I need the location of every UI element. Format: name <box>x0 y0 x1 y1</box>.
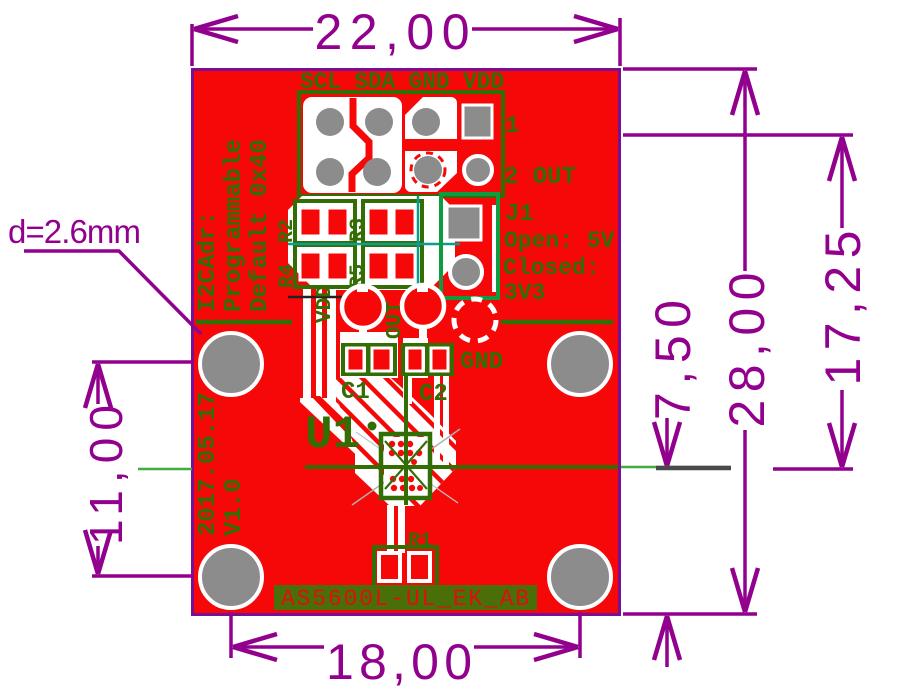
resistor area exposed white region <box>288 196 455 290</box>
svg-text:18,00: 18,00 <box>326 634 472 690</box>
capacitor C2 outline <box>403 345 427 374</box>
jumper J1 outline <box>441 194 498 298</box>
svg-text:I2CAdr:: I2CAdr: <box>195 211 222 312</box>
funnel diagonal bundle to U1 <box>300 398 391 490</box>
C1 pads <box>347 348 364 371</box>
svg-text:Programmable: Programmable <box>221 139 248 312</box>
bare pad circle 3 dashed <box>454 299 496 341</box>
svg-text:R4: R4 <box>276 264 299 288</box>
center line tick left <box>138 468 192 471</box>
pin hole row1 col3 <box>412 108 440 136</box>
silk line right segment y322 <box>501 320 613 325</box>
red patch right block bottom corner <box>437 173 457 192</box>
svg-text:7,50: 7,50 <box>645 300 701 420</box>
white area under C1 <box>340 332 398 378</box>
U1 inner pad field (white with red dot grid) <box>384 437 428 496</box>
svg-text:V1.0: V1.0 <box>221 478 248 536</box>
connector left pad block (white) <box>303 97 402 193</box>
svg-text:VDD: VDD <box>314 285 337 323</box>
silk line left segment y322 <box>196 320 292 325</box>
svg-text:SCL SDA GND VDD: SCL SDA GND VDD <box>300 69 504 95</box>
dim 7,50 lower arrow <box>665 620 669 667</box>
svg-text:17,25: 17,25 <box>815 231 871 386</box>
pin hole row2 col1 <box>316 158 344 186</box>
mounting hole bottom-left <box>200 546 262 608</box>
resistor R1 outline <box>374 547 437 587</box>
svg-text:1: 1 <box>505 113 519 140</box>
svg-text:GND: GND <box>460 349 503 376</box>
dim 28,00 arrows <box>732 71 758 115</box>
trace stubs below U1 <box>387 505 394 553</box>
dark silk line over bundle <box>288 296 346 299</box>
svg-text:2017.05.17: 2017.05.17 <box>195 392 222 536</box>
svg-text:3V3: 3V3 <box>504 280 545 306</box>
U1 crosshair X <box>385 441 427 489</box>
dim 17,25 extension lines <box>623 133 853 137</box>
dim 7,50 upper arrow <box>665 418 669 464</box>
resistor silkscreen outlines <box>295 201 422 287</box>
leader line for d=2.6mm <box>24 251 201 334</box>
dim 28,00 extension lines <box>623 67 757 71</box>
red diagonal stripes over white band <box>306 322 508 524</box>
bottom label box <box>274 585 537 610</box>
connector right pad block (white) <box>405 97 457 192</box>
center line tick right gray <box>656 466 731 471</box>
J1 square pad <box>447 206 481 240</box>
dim 28,00 line <box>743 71 747 271</box>
svg-text:R3: R3 <box>347 218 370 242</box>
svg-text:C2: C2 <box>419 381 448 408</box>
PCB board outline <box>193 70 620 615</box>
R1 pads <box>379 553 400 581</box>
svg-text:J1: J1 <box>505 201 534 228</box>
U1 pin1 dot <box>368 422 377 431</box>
U1 footprint outline <box>381 434 430 498</box>
red patch right block top corner <box>405 97 423 115</box>
teal guide lines <box>288 243 460 246</box>
C2 pads <box>407 348 423 371</box>
trace on connector block <box>352 98 369 192</box>
dim 17,25 line <box>840 137 844 228</box>
svg-text:11,00: 11,00 <box>80 405 132 545</box>
sensor axis line vertical <box>404 376 408 505</box>
svg-text:d=2.6mm: d=2.6mm <box>8 213 141 250</box>
dim 18,00 line <box>233 645 324 649</box>
svg-text:22,00: 22,00 <box>315 4 470 60</box>
funnel white trace bundle left (three vertical stripes) <box>303 288 336 402</box>
svg-text:Open: 5V: Open: 5V <box>504 228 615 254</box>
J1 white trace <box>492 205 496 292</box>
resistor pads row1 <box>300 208 415 236</box>
svg-text:Default 0x40: Default 0x40 <box>247 139 274 312</box>
dim 22,00 left arrow <box>194 16 238 42</box>
dim 17,25 arrows <box>829 137 855 181</box>
bare pad circle 1 <box>342 286 384 328</box>
svg-text:2 OUT: 2 OUT <box>504 164 576 191</box>
dim 11,00 line <box>96 364 100 404</box>
capacitor C1 outline <box>343 345 368 374</box>
svg-text:28,00: 28,00 <box>719 273 775 428</box>
svg-text:AS5600L-UL_EK_AB: AS5600L-UL_EK_AB <box>281 586 529 612</box>
pin hole row2 col3 with dashed ring <box>414 156 442 184</box>
svg-text:U1: U1 <box>305 409 360 461</box>
svg-text:Closed:: Closed: <box>503 255 600 281</box>
dim 18,00 extension lines <box>229 612 233 658</box>
pin 1 square pad <box>463 105 492 138</box>
dim 22,00 extension lines <box>190 24 194 66</box>
pin hole row1 col2 <box>365 108 393 136</box>
mounting hole top-right <box>549 333 611 395</box>
dim 11,00 extension lines <box>92 360 194 364</box>
pin hole row1 col1 <box>316 108 344 136</box>
pin 2 round pad <box>464 156 492 184</box>
svg-text:OUT: OUT <box>384 301 407 339</box>
svg-text:C1: C1 <box>341 379 370 406</box>
faint diagonals through sensor center <box>352 429 460 505</box>
bare pad stubs <box>357 284 368 292</box>
J1 round pad <box>450 256 482 288</box>
dim 22,00 line <box>194 27 313 31</box>
red patch right block middle <box>405 139 457 151</box>
bare pad circle 2 <box>402 285 444 327</box>
svg-text:R2: R2 <box>276 219 299 243</box>
dim 22,00 right arrow <box>574 16 618 42</box>
dim 18,00 arrows <box>233 634 277 660</box>
svg-text:R1: R1 <box>408 530 432 553</box>
resistor pads row2 <box>300 252 415 280</box>
white area under C2 left <box>403 338 428 378</box>
dim 11,00 arrows <box>85 364 111 408</box>
mounting hole bottom-right <box>549 546 611 608</box>
white traces from C2 down right side of U1 <box>434 374 440 470</box>
pin hole row2 col2 <box>363 158 391 186</box>
mounting hole top-left <box>200 333 262 395</box>
connector J2 silkscreen outline <box>299 92 503 196</box>
sensor axis line horizontal <box>305 465 618 469</box>
center line tick right green <box>621 466 731 469</box>
